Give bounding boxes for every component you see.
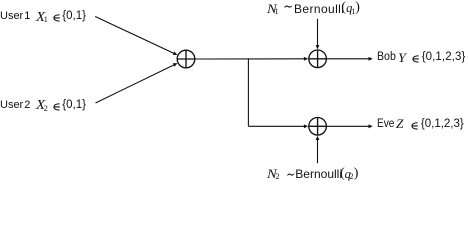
wire output arrow to Eve — [326, 124, 372, 128]
wire arrow from User 2 to adder U1 — [96, 63, 178, 103]
wire arrow from User 1 to adder U1 — [95, 17, 177, 56]
adder U1 (XOR of X1 and X2) — [177, 50, 195, 68]
wire noise N1 into adder U2 with arrowhead — [316, 19, 320, 50]
wire from adder U1 to adder U2 (Bob) with arrowhead — [195, 57, 308, 61]
label noise N1 Bernoulli(q1) — [0, 0, 468, 1]
wire noise N2 into adder U3 with arrowhead — [316, 136, 320, 164]
wire branch junction down toward Eve adder — [247, 58, 249, 126]
label noise N2 Bernoulli(q2) — [0, 0, 468, 1]
label User 1 input — [0, 0, 468, 1]
label Bob output — [0, 0, 468, 1]
label User 2 input — [0, 0, 468, 1]
wire output arrow to Bob — [326, 57, 372, 61]
adder U3 (Eve channel) — [309, 118, 327, 136]
adder U2 (Bob channel) — [309, 50, 327, 68]
wire from branch junction to adder U3 (Eve) with arrowhead — [248, 124, 308, 128]
label Eve output — [0, 0, 468, 1]
